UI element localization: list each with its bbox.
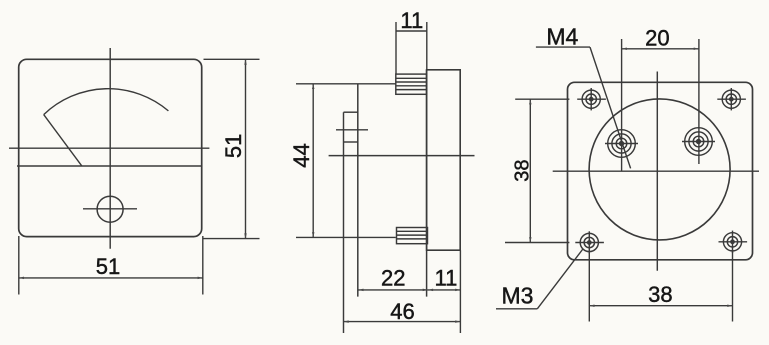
rear terminal block center tick <box>336 129 368 131</box>
rear terminal block left edge + 46 ext <box>343 112 345 333</box>
top 11 ext right <box>426 22 428 70</box>
top 11 ext left <box>395 22 397 74</box>
rear terminal block divider <box>344 141 358 143</box>
corner screw TR <box>717 88 746 110</box>
46 arrow right <box>455 320 460 323</box>
22/11 ext mid already; 22 dimension line <box>358 289 428 291</box>
body front face vertical (with 22 ext) <box>357 84 359 297</box>
11 bottom arrow left <box>428 289 433 292</box>
left 38 ext top <box>515 98 569 100</box>
stud left vertical / 20 ext <box>621 39 623 171</box>
svg-text:51: 51 <box>221 134 246 158</box>
needle <box>44 115 82 166</box>
stud right vertical / 20 ext <box>698 39 700 164</box>
top mounting stud <box>396 74 427 94</box>
svg-text:44: 44 <box>289 143 314 167</box>
svg-text:46: 46 <box>390 299 414 324</box>
svg-text:M4: M4 <box>546 23 578 49</box>
bottom 51 arrow left <box>19 277 24 280</box>
front vertical center line <box>109 48 111 249</box>
11 bottom dimension line <box>428 289 461 291</box>
back horizontal center line <box>553 170 759 172</box>
body circle <box>589 99 730 240</box>
dial split line <box>17 165 202 167</box>
M4 leader underline <box>536 46 590 48</box>
22 arrow right <box>423 289 428 292</box>
bottom 38 arrow right <box>727 304 732 307</box>
back vertical center line <box>656 72 658 271</box>
front horizontal center line <box>9 147 209 149</box>
right 51 dim extension top <box>204 58 260 60</box>
bottom 38 ext left <box>588 252 590 322</box>
corner screw BL <box>575 231 604 253</box>
scale arc <box>44 89 169 115</box>
bezel front face extension down (for 11 and 46 dims) <box>459 250 461 333</box>
right 51 dim extension bottom <box>203 238 260 240</box>
right 51 dimension line <box>245 59 247 238</box>
terminal stud left (M4) <box>605 130 638 158</box>
back plate outline <box>568 82 753 259</box>
left 38 dimension line <box>529 99 531 242</box>
body rear/bezel joint vertical (with ext) <box>426 70 428 297</box>
bottom 51 dimension line <box>19 277 203 279</box>
bottom 38 dimension line <box>589 305 732 307</box>
bottom 51 dim extension left <box>18 236 20 295</box>
right 51 arrow up <box>244 60 247 65</box>
left 38 ext bottom <box>505 242 569 244</box>
bezel rectangle <box>427 70 461 250</box>
bottom 38 arrow left <box>589 304 594 307</box>
svg-text:20: 20 <box>645 26 669 51</box>
front view outline (51x51 bezel) <box>19 59 202 236</box>
svg-text:11: 11 <box>400 8 423 33</box>
body bottom edge + 44 ext <box>296 236 396 238</box>
M4 leader diagonal <box>590 47 631 168</box>
22 arrow left <box>358 289 363 292</box>
side view horizontal center line <box>329 155 475 157</box>
zero screw horizontal tick <box>83 208 137 210</box>
20 dimension line <box>622 48 699 50</box>
bottom 38 ext right <box>732 251 734 322</box>
svg-text:22: 22 <box>381 266 405 291</box>
46 arrow left <box>344 320 349 323</box>
terminal stud right (M4) <box>682 128 715 156</box>
44 arrow down <box>312 232 315 237</box>
20 arrow left <box>622 48 627 51</box>
body top edge + 44 ext <box>296 83 396 85</box>
svg-text:38: 38 <box>648 282 672 307</box>
44 arrow up <box>312 84 315 89</box>
rear terminal block top <box>344 111 358 113</box>
zero adjust screw circle <box>97 196 123 222</box>
svg-text:38: 38 <box>511 159 533 181</box>
left 38 arrow down <box>529 237 532 242</box>
svg-text:51: 51 <box>96 254 120 279</box>
20 arrow right <box>694 48 699 51</box>
46 dimension line <box>344 321 461 323</box>
bottom 51 arrow right <box>198 277 203 280</box>
corner screw BR <box>719 231 748 253</box>
svg-text:M3: M3 <box>502 282 534 308</box>
bottom mounting stud <box>397 228 428 244</box>
top 11 dimension line <box>396 30 427 32</box>
svg-text:11: 11 <box>434 266 457 291</box>
11 bottom arrow right <box>455 289 460 292</box>
44 dimension line <box>312 84 314 238</box>
left 38 arrow up <box>529 99 532 104</box>
M3 leader diagonal <box>537 249 583 309</box>
right 51 arrow down <box>244 233 247 238</box>
bottom 51 dim extension right <box>202 236 204 295</box>
corner screw TL <box>577 88 606 110</box>
M3 leader underline <box>496 308 537 310</box>
